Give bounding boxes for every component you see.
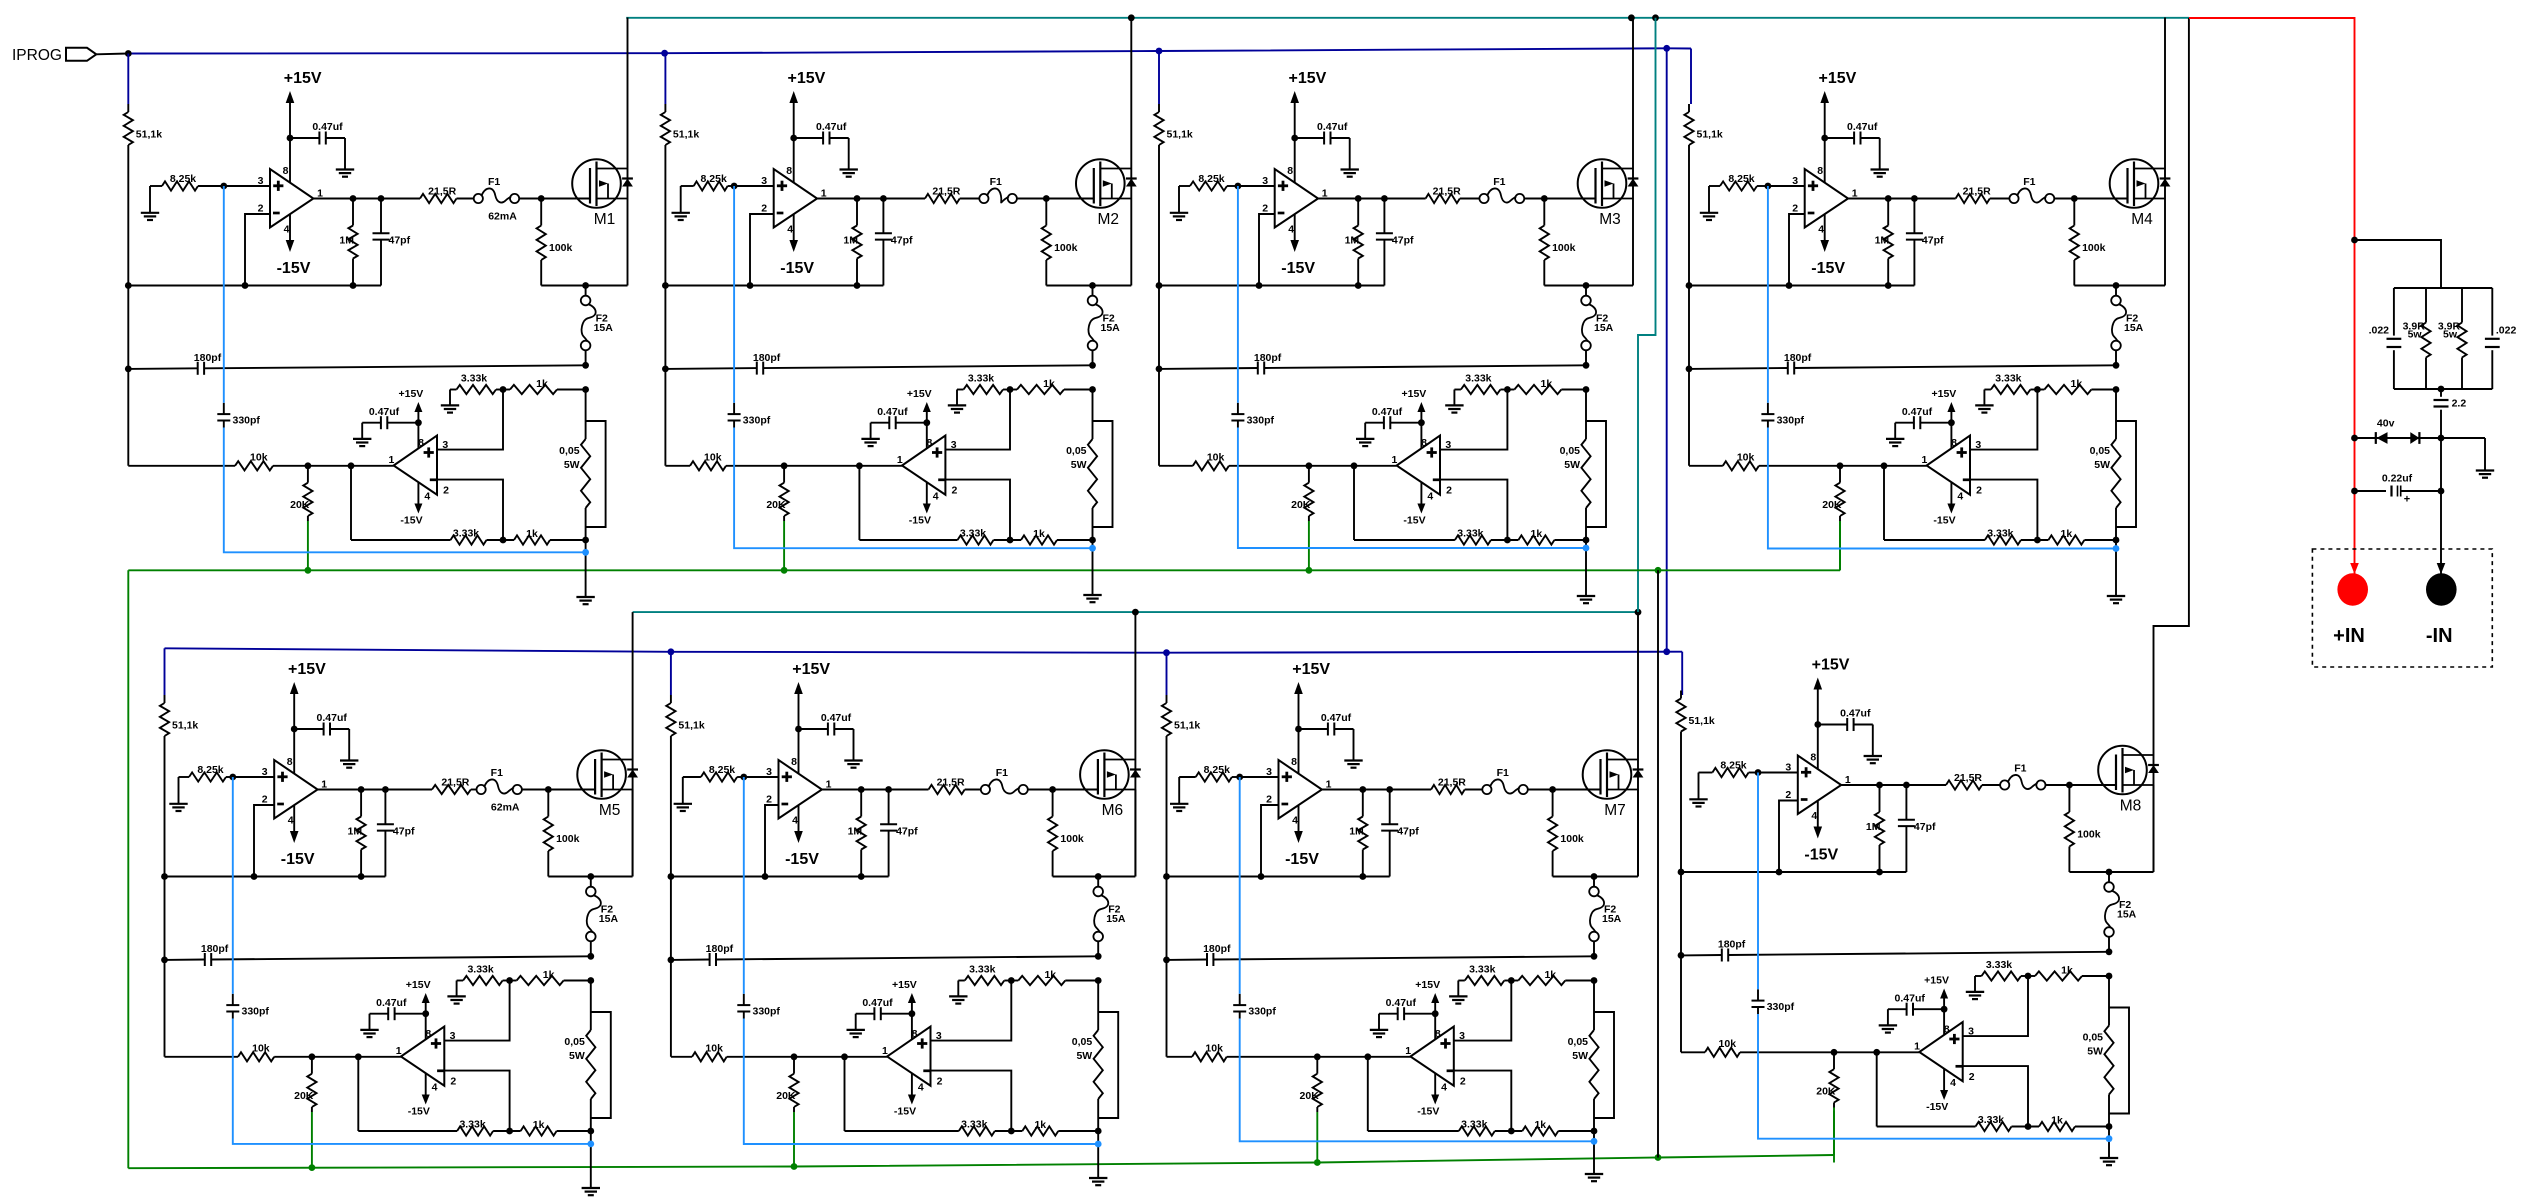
wire output feedback (op-amp U8B) [1876,1052,1878,1126]
svg-text:8: 8 [287,756,293,768]
svg-text:21,5R: 21,5R [937,777,965,789]
svg-text:1k: 1k [1531,528,1543,540]
svg-text:8,25k: 8,25k [197,764,223,776]
power +15V (block M6) [792,661,830,774]
svg-text:180pf: 180pf [753,352,781,364]
svg-text:0.47uf: 0.47uf [1895,993,1926,1005]
wire feedback row (block M1) [128,285,381,287]
svg-text:1M: 1M [1875,235,1890,247]
resistor 8,25k (block M1) [150,173,224,191]
resistor 0,05 5W (block M5) [564,981,595,1132]
svg-text:47pf: 47pf [389,235,411,247]
svg-text:1k: 1k [2051,1115,2063,1127]
wire op-amp output (block M8) [1841,784,1946,786]
svg-text:4: 4 [1957,491,1963,503]
power +15V (op-amp U8B) [1924,975,1949,1035]
capacitor 0.47uf (op-amp U4B supply) [1895,406,1955,438]
op-amp U5A (block M5) [274,760,317,819]
capacitor 47pf (block M1) [373,199,411,286]
svg-text:0,05: 0,05 [1568,1036,1589,1048]
fuse F1 (block M8) [2000,762,2045,789]
svg-text:F1: F1 [488,176,500,188]
resistor 21,5R (block M8) [1946,772,2000,790]
capacitor 330pf (block M8) [1752,989,1795,1014]
ground at 0.47uf (block M5) [340,759,358,761]
power -15V (op-amp U7B) [1417,1073,1439,1117]
wire output feedback (op-amp U7B) [1367,1057,1369,1131]
ground at 0.47uf (op-amp U8B) [1879,1024,1897,1026]
wire left rail (block M4) [1688,145,1690,466]
ground at 8,25k (block M8) [1689,773,1707,807]
svg-text:-15V: -15V [1285,851,1319,868]
svg-text:100k: 100k [549,242,573,254]
pin labels op-amp U8B [1914,1023,1975,1089]
svg-text:2: 2 [1262,203,1268,215]
wire F1 to gate (block M3) [1524,198,1596,200]
resistor 10k (block M4) [1689,451,1759,470]
power -15V (block M5) [281,805,315,869]
op-amp U1B (block M1) [394,436,437,495]
capacitor 47pf (block M3) [1376,199,1414,286]
svg-text:21,5R: 21,5R [1433,186,1461,198]
resistor 3.33k (bottom, block M8) [1877,1114,2039,1131]
capacitor 47pf (block M7) [1381,790,1419,877]
svg-text:3.33k: 3.33k [1995,373,2021,385]
resistor 3.33k (bottom, block M5) [358,1119,520,1136]
power -15V (op-amp U5B) [408,1073,430,1117]
svg-text:1k: 1k [543,969,555,981]
svg-text:2: 2 [450,1076,456,1088]
svg-text:62mA: 62mA [491,802,520,814]
svg-text:F1: F1 [2014,762,2026,774]
wire pin2 feedback (block M5) [254,805,274,877]
wire output feedback (op-amp U1B) [350,466,352,540]
power -15V (op-amp U8B) [1926,1069,1948,1113]
wire 20K to green bus (block M3) [1308,521,1310,570]
wire pin2 (op-amp U5B) [444,1071,509,1131]
wire pin3 (op-amp U1B) [437,390,503,450]
transistor M5 [577,750,638,799]
terminal +IN [2337,573,2368,606]
wire pin2 feedback (block M1) [245,214,270,286]
resistor 3.33k (top, block M6) [958,964,1004,986]
svg-text:5W: 5W [1071,459,1087,471]
svg-text:8: 8 [786,165,792,177]
svg-text:F1: F1 [491,767,503,779]
wire bottom node (block M2) [1092,540,1094,595]
resistor 1k (bottom, block M7) [1508,1119,1598,1136]
wire sense (light blue, block M7) [1239,777,1241,994]
ground at 0.47uf (op-amp U5B) [360,1029,378,1031]
resistor 1k (bottom, block M5) [506,1119,594,1136]
svg-text:4: 4 [284,224,290,236]
resistor 8,25k (block M6) [683,764,744,782]
fuse F1 (block M5) [477,767,522,794]
wire IPROG bus (navy, top) [128,48,1691,53]
svg-text:-15V: -15V [281,851,315,868]
wire source drop (block M7) [1637,790,1639,877]
power +15V (block M3) [1288,70,1326,183]
wire op-amp output (block M4) [1848,198,1956,200]
power +15V (block M8) [1812,657,1850,770]
resistor 0,05 5W (block M4) [2090,390,2121,541]
ground at 3.33k (block M7) [1449,981,1467,1004]
resistor 10k (block M6) [671,1042,727,1061]
svg-text:-15V: -15V [1811,260,1845,277]
wire bottom node (block M5) [590,1131,592,1188]
wire green riser block M4 [1839,521,1841,570]
svg-text:0.47uf: 0.47uf [369,406,400,418]
power -15V (op-amp U3B) [1403,482,1425,526]
ground bottom (block M7) [1585,1173,1603,1175]
resistor 1k (bottom, block M1) [500,528,589,545]
svg-text:21,5R: 21,5R [441,777,469,789]
fuse F2 (block M8) [2104,872,2136,952]
svg-text:-15V: -15V [277,260,311,277]
resistor 3.33k (bottom, block M4) [1884,528,2048,545]
capacitor 180pf (block M2) [662,352,1096,375]
fuse F2 (block M4) [2111,286,2143,366]
svg-text:5w: 5w [2443,329,2458,341]
wire pin3 (block M5) [233,776,274,778]
svg-text:-15V: -15V [1926,1101,1948,1113]
capacitor 47pf (block M5) [377,790,415,877]
svg-text:0.47uf: 0.47uf [376,997,407,1009]
ground at 8,25k (block M5) [169,777,187,811]
svg-text:3: 3 [766,766,772,778]
wire pin3 (block M8) [1758,772,1798,774]
wire feedback row (block M2) [665,285,883,287]
svg-text:1k: 1k [1044,969,1056,981]
ground at 0.47uf (block M8) [1864,755,1882,757]
svg-text:47pf: 47pf [1392,235,1414,247]
svg-text:3: 3 [761,175,767,187]
svg-text:4: 4 [787,224,793,236]
svg-text:0,05: 0,05 [2090,445,2111,457]
svg-text:1M: 1M [339,235,354,247]
resistor 1k (top, block M5) [503,969,595,985]
svg-text:3: 3 [1785,762,1791,774]
svg-text:-15V: -15V [894,1106,916,1118]
svg-text:F1: F1 [1497,767,1509,779]
svg-text:62mA: 62mA [488,211,517,223]
snubber network frame [2394,287,2492,289]
wire sense (light blue, block M2) [733,186,735,403]
svg-text:8,25k: 8,25k [709,764,735,776]
wire drain bus (teal, top) [626,17,2189,19]
wire output feedback (op-amp U3B) [1353,466,1355,540]
resistor 100k (block M4) [2070,199,2106,286]
power -15V (block M7) [1285,805,1319,869]
ground at 8,25k (block M4) [1700,186,1718,220]
svg-text:1M: 1M [1345,235,1360,247]
wire source row (block M7) [1553,876,1638,878]
wire green riser block M8 [1833,1111,1835,1156]
svg-text:100k: 100k [2077,829,2101,841]
capacitor 180pf (block M5) [161,943,594,966]
svg-text:3.33k: 3.33k [1461,1119,1487,1131]
svg-text:+15V: +15V [1292,661,1330,678]
wire +IN feed (red) [2189,18,2355,574]
wire pin3 (block M7) [1240,776,1279,778]
svg-text:2: 2 [1792,203,1798,215]
wire pin2 feedback (block M2) [750,214,774,286]
svg-text:-15V: -15V [785,851,819,868]
transistor M2 [1076,159,1137,208]
svg-text:1: 1 [897,454,903,466]
capacitor 0.47uf (op-amp U2B supply) [871,406,931,438]
svg-text:M4: M4 [2131,211,2153,228]
svg-text:3.33k: 3.33k [968,373,994,385]
svg-text:330pf: 330pf [1767,1001,1795,1013]
svg-text:100k: 100k [1054,242,1078,254]
svg-text:47pf: 47pf [891,235,913,247]
diode pair 40v [2355,417,2486,444]
wire 10k to op-amp (block M4) [1759,465,1927,467]
pin labels op-amp U7B [1405,1028,1466,1094]
pin labels op-amp U3A [1262,165,1328,236]
fuse F1 (block M6) [981,767,1028,794]
svg-text:51,1k: 51,1k [1689,715,1715,727]
svg-text:20K: 20K [766,499,786,511]
wire F1 to gate (block M5) [522,789,596,791]
svg-text:+15V: +15V [284,70,322,87]
capacitor 0.47uf (op-amp U8B supply) [1888,993,1948,1025]
capacitor 0.47uf (op-amp U7A supply) [1295,712,1353,760]
resistor 8,25k (block M3) [1179,173,1238,191]
capacitor 330pf (block M5) [226,994,269,1019]
svg-text:10k: 10k [250,451,268,463]
svg-text:330pf: 330pf [233,414,261,426]
resistor 1k (top, block M3) [1500,378,1589,394]
pin labels op-amp U8A [1785,752,1851,823]
wire F1 to gate (block M2) [1017,198,1094,200]
svg-text:0,05: 0,05 [2083,1032,2104,1044]
wire left rail (block M3) [1158,145,1160,466]
resistor 100k (block M2) [1042,199,1078,286]
pin labels op-amp U1A [258,165,324,236]
resistor 1k (bottom, block M6) [1008,1119,1102,1136]
svg-text:51,1k: 51,1k [136,128,162,140]
wire pin3 (block M3) [1238,185,1275,187]
wire source row (block M4) [2074,285,2165,287]
wire sense (light blue, block M5) [232,777,234,994]
svg-text:1k: 1k [1043,378,1055,390]
svg-text:3.33k: 3.33k [1978,1114,2004,1126]
svg-text:0.47uf: 0.47uf [1317,121,1348,133]
svg-text:M6: M6 [1102,802,1124,819]
svg-text:51,1k: 51,1k [1174,719,1200,731]
wire pin3 (op-amp U3B) [1440,390,1507,450]
resistor 8,25k (block M7) [1179,764,1240,782]
svg-text:21,5R: 21,5R [428,186,456,198]
svg-text:4: 4 [288,815,294,827]
op-amp U2A (block M2) [774,169,817,228]
wire left rail (block M5) [164,736,166,1057]
svg-text:3: 3 [1262,175,1268,187]
resistor 3.33k (top, block M1) [450,373,496,395]
svg-text:.022: .022 [2496,325,2517,337]
svg-text:51,1k: 51,1k [1167,128,1193,140]
svg-text:5W: 5W [1564,459,1580,471]
wire source row (block M1) [541,285,627,287]
resistor 1k (bottom, block M8) [2025,1115,2113,1132]
wire source row (block M2) [1046,285,1131,287]
resistor 1k (top, block M7) [1504,969,1597,985]
svg-text:1: 1 [396,1045,402,1057]
svg-text:180pf: 180pf [1784,352,1812,364]
svg-text:180pf: 180pf [201,943,229,955]
wire pin3 (op-amp U2B) [945,390,1010,450]
resistor 0,05 5W (block M8) [2083,976,2114,1127]
pin labels op-amp U6A [766,756,832,827]
svg-text:47pf: 47pf [1922,235,1944,247]
fuse F1 (block M7) [1482,767,1527,794]
pin labels op-amp U5B [396,1028,457,1094]
resistor 20K (block M6) [776,1057,798,1112]
power +15V (block M4) [1818,70,1856,183]
svg-text:-15V: -15V [408,1106,430,1118]
svg-text:10k: 10k [1719,1038,1737,1050]
svg-text:3.33k: 3.33k [1986,959,2012,971]
svg-text:8,25k: 8,25k [1204,764,1230,776]
capacitor 330pf (block M2) [728,403,771,428]
capacitor 0.47uf (op-amp U1B supply) [362,406,422,438]
resistor 20K (block M5) [294,1057,316,1112]
op-amp U4B (block M4) [1927,436,1970,495]
ground at 3.33k (block M4) [1975,390,1993,413]
wire M6 drain drop [1134,612,1136,876]
wire 10k to op-amp (block M3) [1229,465,1397,467]
svg-text:3.33k: 3.33k [1465,373,1491,385]
wire bottom node (block M1) [585,540,587,597]
wire F1 to gate (block M1) [519,198,590,200]
svg-text:M7: M7 [1604,802,1626,819]
svg-text:330pf: 330pf [753,1005,781,1017]
svg-text:1k: 1k [1541,378,1553,390]
capacitor 47pf (block M6) [880,790,918,877]
wire pin2 (op-amp U6B) [931,1071,1012,1131]
wire left rail (block M6) [670,736,672,1057]
wire bottom node (block M6) [1097,1131,1099,1178]
svg-text:M5: M5 [599,802,621,819]
resistor 21,5R (block M2) [925,186,980,204]
wire output feedback (op-amp U2B) [858,466,860,540]
power -15V (block M2) [780,214,814,278]
svg-text:2: 2 [951,485,957,497]
wire feedback row (block M5) [165,876,386,878]
resistor 51,1k (block M5) [160,695,199,736]
power -15V (block M6) [785,805,819,869]
wire pin2 (op-amp U2B) [945,480,1010,540]
wire feedback row (block M4) [1689,285,1914,287]
svg-text:20K: 20K [290,499,310,511]
resistor 3.33k (top, block M3) [1454,373,1500,395]
resistor 51,1k (block M8) [1676,691,1715,732]
transistor M6 [1080,750,1141,799]
resistor 3.33k (bottom, block M3) [1354,528,1518,545]
svg-text:20K: 20K [776,1090,796,1102]
op-amp U8B (block M8) [1919,1022,1962,1081]
svg-text:4: 4 [1427,491,1433,503]
svg-text:8: 8 [1810,752,1816,764]
capacitor 0.22uf [2355,472,2442,505]
svg-text:0,05: 0,05 [1066,445,1087,457]
resistor 3.33k (bottom, block M2) [859,528,1021,545]
svg-text:2: 2 [937,1076,943,1088]
svg-text:3.33k: 3.33k [467,964,493,976]
resistor 51,1k (block M6) [666,695,705,736]
ground at 0.47uf (op-amp U3B) [1356,438,1374,440]
capacitor 180pf (block M3) [1156,352,1590,375]
IPROG connector [12,47,128,64]
wire left rail (block M1) [127,145,129,466]
wire drain riser (block M2) [1130,18,1132,286]
svg-text:5W: 5W [1076,1050,1092,1062]
svg-text:10k: 10k [705,1042,723,1054]
svg-text:15A: 15A [2117,909,2137,921]
capacitor 330pf (block M4) [1761,403,1804,428]
capacitor 0.47uf (op-amp U7B supply) [1379,997,1439,1029]
resistor 0,05 5W (block M1) [559,390,590,541]
wire op-amp output (block M7) [1322,789,1431,791]
capacitor .022 (right) [2485,288,2517,389]
capacitor 180pf (block M7) [1163,943,1597,966]
ground at 0.47uf (block M3) [1341,168,1359,170]
wire pin3 (block M6) [744,776,779,778]
ground at 3.33k (block M8) [1966,976,1984,999]
resistor 1k (bottom, block M3) [1504,528,1589,545]
wire 20K to green bus (block M4) [1839,521,1841,570]
wire feedback row (block M7) [1167,876,1390,878]
resistor 3.33k (top, block M2) [957,373,1003,395]
op-amp U3A (block M3) [1275,169,1318,228]
svg-text:4: 4 [918,1082,924,1094]
power +15V (op-amp U3B) [1401,388,1426,448]
svg-text:+15V: +15V [288,661,326,678]
wire 20K to green bus (block M5) [311,1112,313,1167]
svg-text:0,05: 0,05 [564,1036,585,1048]
svg-text:20K: 20K [1816,1086,1836,1098]
svg-text:5W: 5W [2094,459,2110,471]
wire IPROG bus (navy, bottom) [165,648,1683,652]
svg-text:8,25k: 8,25k [170,173,196,185]
wire F1 to gate (block M6) [1028,789,1098,791]
ground bottom (block M8) [2100,1157,2118,1159]
svg-text:47pf: 47pf [896,826,918,838]
svg-text:+15V: +15V [787,70,825,87]
wire pin2 (op-amp U8B) [1963,1066,2028,1126]
svg-text:20K: 20K [1300,1090,1320,1102]
resistor 1M (block M7) [1349,790,1367,877]
resistor 3.33k (bottom, block M6) [845,1119,1023,1136]
capacitor 0.47uf (op-amp U3A supply) [1291,121,1349,169]
svg-text:10k: 10k [1737,451,1755,463]
transistor M3 [1578,159,1639,208]
svg-text:+15V: +15V [907,388,932,400]
svg-text:+15V: +15V [1415,979,1440,991]
fuse F2 (block M5) [586,877,618,957]
power -15V (block M8) [1804,800,1838,864]
wire pin3 (op-amp U6B) [931,981,1012,1041]
ground at 0.47uf (block M6) [844,759,862,761]
wire source row (block M3) [1544,285,1633,287]
wire drain riser (block M1) [627,18,629,286]
wire pin3 (block M2) [734,185,774,187]
svg-text:5w: 5w [2408,329,2423,341]
wire 20K to green bus (block M6) [793,1112,795,1167]
resistor 51,1k (block M3) [1154,104,1193,145]
